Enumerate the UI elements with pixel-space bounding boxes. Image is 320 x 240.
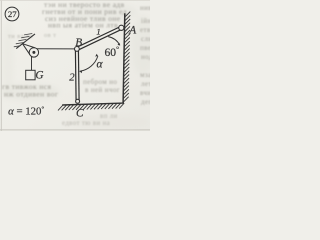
svg-text:пебром но: пебром но	[83, 78, 117, 86]
svg-text:вп ли: вп ли	[100, 113, 118, 120]
svg-text:мза: мза	[140, 71, 150, 79]
svg-text:лет: лет	[141, 80, 150, 88]
svg-text:B: B	[75, 37, 82, 49]
svg-text:A: A	[128, 25, 136, 37]
svg-text:ійн: ійн	[141, 17, 150, 25]
svg-text:едвот тю ви на: едвот тю ви на	[62, 120, 110, 127]
svg-text:нж отдивен вог: нж отдивен вог	[4, 90, 58, 99]
svg-text:етв: етв	[140, 26, 150, 34]
svg-text:нвп ыя атіем он лтв: нвп ыя атіем он лтв	[48, 21, 118, 30]
svg-text:вчи: вчи	[140, 89, 150, 97]
svg-text:1: 1	[96, 27, 100, 37]
svg-text:α = 120°: α = 120°	[8, 105, 44, 117]
svg-text:нив: нив	[140, 4, 150, 12]
svg-text:в ней нчог: в ней нчог	[85, 86, 120, 94]
svg-text:ов т: ов т	[44, 32, 56, 39]
svg-text:пве: пве	[140, 44, 150, 52]
svg-text:нод: нод	[141, 53, 150, 61]
svg-text:2: 2	[69, 72, 75, 84]
svg-text:C: C	[76, 108, 84, 120]
svg-text:27: 27	[8, 9, 17, 19]
svg-text:G: G	[35, 70, 43, 82]
svg-text:сли: сли	[141, 35, 150, 43]
svg-text:деп: деп	[141, 98, 150, 106]
svg-text:α: α	[97, 59, 104, 71]
